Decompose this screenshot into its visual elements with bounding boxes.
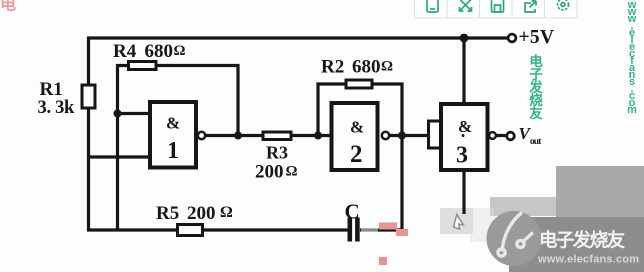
wire: gate3 output to Vout terminal bbox=[497, 134, 506, 137]
terminal +5V open circle bbox=[508, 34, 516, 42]
NAND gate U3 body bbox=[441, 104, 488, 170]
watermark faint bridge smudge bbox=[470, 208, 494, 242]
svg-text:C: C bbox=[345, 200, 360, 224]
gate U3 label dot bbox=[462, 134, 465, 137]
svg-text:&: & bbox=[458, 117, 472, 136]
node junction dot R2 left / gate2 input net bbox=[314, 132, 322, 140]
svg-text:电子发烧友: 电子发烧友 bbox=[528, 53, 543, 121]
gate U3 input tie bracket bbox=[429, 121, 442, 148]
svg-text:R2680Ω: R2680Ω bbox=[321, 57, 393, 78]
wire: left column lower segment to bottom rail bbox=[89, 108, 348, 230]
svg-text:电子发烧友: 电子发烧友 bbox=[539, 230, 626, 251]
wire: gate3 bottom stub bbox=[462, 170, 465, 214]
capacitor C plates bbox=[350, 218, 358, 242]
svg-text:R3: R3 bbox=[266, 143, 288, 163]
watermark gray smudge around cursor bbox=[440, 208, 473, 234]
watermark white wash over bottom wire bbox=[361, 225, 378, 232]
gate U2 output bubble bbox=[382, 132, 389, 139]
svg-text:200Ω: 200Ω bbox=[255, 162, 298, 183]
icon save floppy bbox=[492, 0, 504, 12]
resistor R1 bbox=[82, 85, 95, 108]
svg-text:www.elecfans.com: www.elecfans.com bbox=[537, 254, 639, 266]
gate U3 output bubble bbox=[489, 132, 496, 139]
svg-text:2: 2 bbox=[350, 141, 363, 168]
wire: R4 left leg down through node A to bottom rail bbox=[118, 66, 129, 231]
svg-text:&: & bbox=[166, 114, 180, 133]
resistor R5 bbox=[178, 225, 203, 236]
icon expand arrows bbox=[460, 0, 472, 11]
icon share bbox=[525, 1, 536, 12]
resistor R3 bbox=[263, 132, 291, 140]
watermark pink dashes near capacitor bbox=[379, 223, 408, 266]
svg-text:R4680Ω: R4680Ω bbox=[113, 41, 186, 62]
wire: R4 right leg down to gate1 output net bbox=[156, 66, 238, 136]
gate U1 output bubble bbox=[198, 132, 205, 139]
toolbar icon cells top right bbox=[415, 0, 578, 18]
node junction dot +5V rail above gate3 bbox=[460, 34, 469, 43]
watermark logo circle bbox=[487, 211, 542, 266]
resistor R2 bbox=[346, 80, 372, 88]
wire: gate2 output to gate3 input bracket bbox=[390, 134, 429, 137]
watermark dark gray box bottom right bbox=[509, 217, 644, 272]
wire: top +5V rail bbox=[89, 38, 509, 84]
watermark cursor arrow bbox=[453, 214, 465, 229]
wire: R2 left leg bbox=[318, 84, 346, 136]
svg-text:电: 电 bbox=[0, 0, 16, 14]
svg-text:&: & bbox=[350, 118, 364, 137]
watermark gray zone upper right of logo box bbox=[556, 166, 644, 218]
wire: gate1 output to R3 bbox=[206, 134, 263, 137]
node junction dot R4 right / gate1 output net bbox=[234, 132, 242, 140]
watermark logo traces bbox=[498, 213, 533, 257]
icon gear bbox=[558, 0, 569, 10]
svg-text:R5200Ω: R5200Ω bbox=[156, 203, 233, 224]
NAND gate U2 body bbox=[332, 103, 378, 170]
wire: gate1 lower input from left column bbox=[89, 155, 150, 158]
watermark transition smudge left of dark box bbox=[490, 197, 559, 216]
node A junction dot bbox=[114, 110, 122, 118]
wire: gate3 top to +5V rail bbox=[462, 37, 465, 105]
svg-text:+5V: +5V bbox=[519, 27, 555, 48]
svg-text:1: 1 bbox=[167, 138, 179, 164]
icon phone bbox=[427, 0, 438, 12]
terminal Vout open circle bbox=[507, 132, 515, 140]
NAND gate U1 body bbox=[150, 102, 196, 168]
wire: gate1 upper input from node A bbox=[118, 112, 150, 115]
svg-text:3: 3 bbox=[456, 143, 468, 169]
resistor R4 bbox=[129, 62, 157, 70]
wire: R3 to gate2 input bbox=[291, 134, 331, 137]
node junction dot R2 right / gate2 output net bbox=[398, 132, 406, 140]
wire: R2 right leg down through gate2 output net to bottom rail bbox=[360, 84, 402, 230]
svg-text:3. 3k: 3. 3k bbox=[38, 98, 76, 118]
svg-text:R1: R1 bbox=[40, 79, 63, 100]
